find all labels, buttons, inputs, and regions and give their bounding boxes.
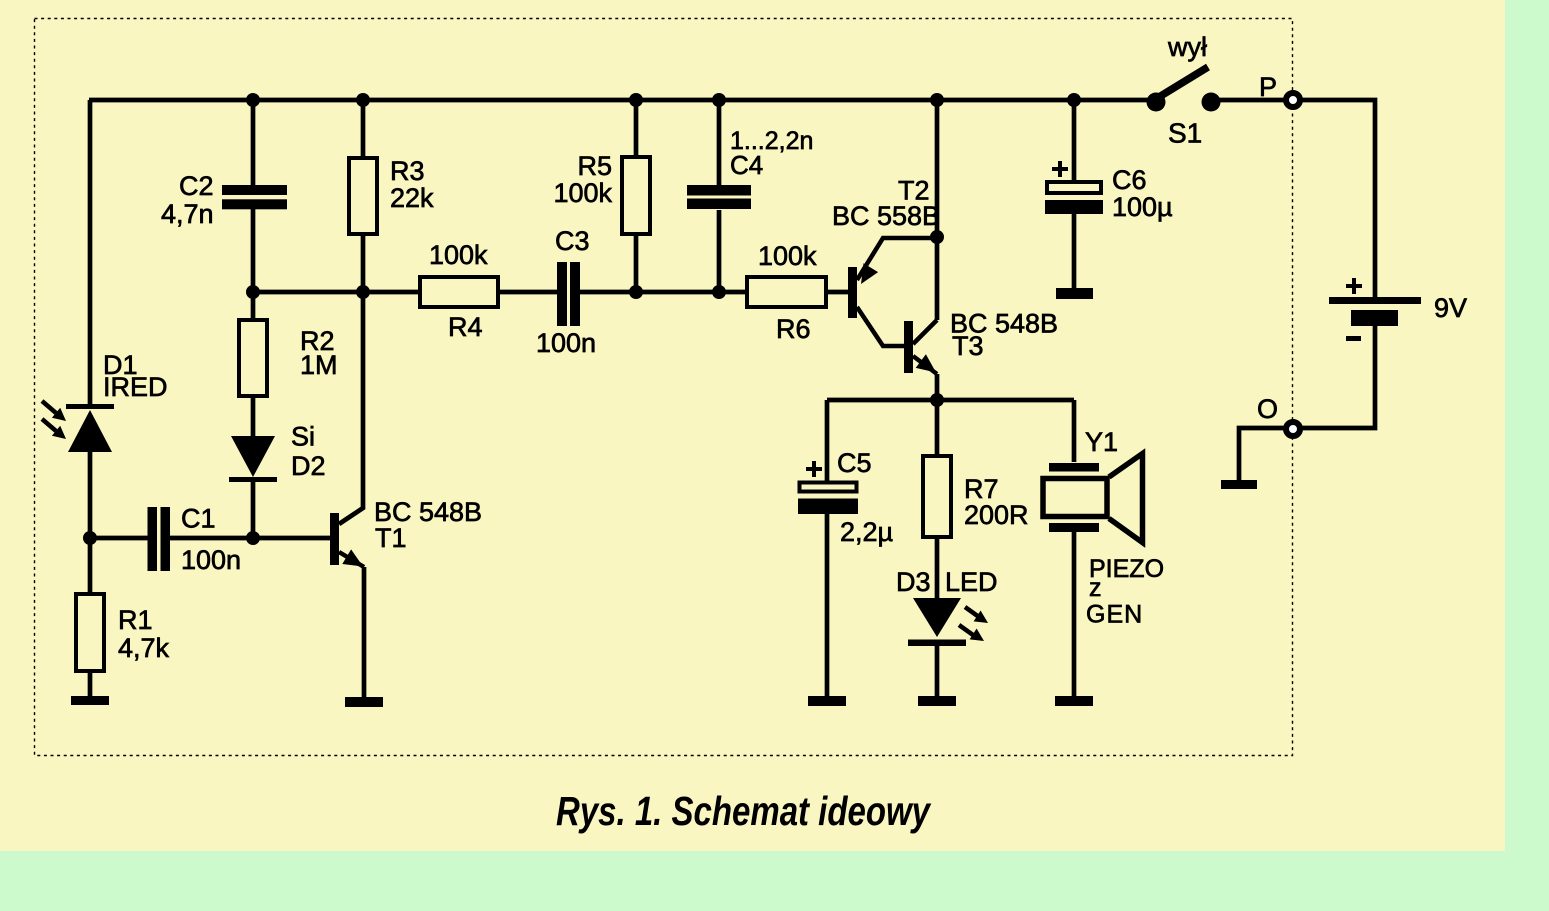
svg-text:P: P [1259,72,1277,102]
svg-text:R6: R6 [776,314,811,344]
svg-text:LED: LED [945,567,998,597]
svg-text:4,7n: 4,7n [161,199,214,229]
wire node A to R1 [88,538,93,594]
node row2 R5 [629,285,643,299]
wire R7 to D3 [935,537,940,598]
wire top rail [89,98,1156,103]
resistor R4 [420,277,498,307]
wire T1 emitter to ground [362,567,367,697]
resistor R2 [239,320,267,396]
svg-text:wył: wył [1167,32,1207,62]
switch S1 [1147,67,1221,112]
wire C4 top [717,100,722,185]
ground O terminal [1221,480,1257,489]
node top C4 [712,93,726,107]
svg-text:100µ: 100µ [1112,192,1173,222]
svg-text:Si: Si [291,422,315,452]
D3 light arrow 1 [965,607,988,623]
svg-text:C2: C2 [179,171,214,201]
svg-text:O: O [1257,394,1278,424]
svg-text:200R: 200R [964,500,1029,530]
svg-text:R5: R5 [577,151,612,181]
node row2 C2 [246,285,260,299]
ground R1 [71,696,109,705]
node top T2 [930,93,944,107]
C6 plus sign [1052,161,1068,177]
wire R3 top [361,100,366,158]
svg-text:100k: 100k [758,241,817,271]
svg-text:IRED: IRED [103,372,168,402]
transistor T2 BC 558B [848,238,937,346]
svg-text:1M: 1M [300,350,338,380]
wire S1 to P terminal [1210,98,1285,103]
resistor R3 [349,158,377,234]
wire C2 top [251,100,256,186]
D1 light arrow 1 [42,401,66,421]
wire C6 to ground [1072,214,1077,288]
node D2 C1 T1 [246,531,260,545]
diode D3 LED [908,598,966,646]
piezo Y1 [1043,454,1143,543]
D1 light arrow 2 [42,419,66,439]
wire R2 to D2 [251,396,256,436]
D3 light arrow 2 [959,625,984,641]
capacitor C1 [148,507,171,571]
wire R4 to C3 [498,290,557,295]
svg-text:100n: 100n [181,545,241,575]
svg-text:D3: D3 [896,567,931,597]
wire R6 to T2 base [826,290,848,295]
svg-text:100k: 100k [429,240,488,270]
wire C6 top [1072,100,1077,182]
wire D3 to ground [935,646,940,697]
wire Y1 to ground [1072,532,1077,697]
svg-text:C5: C5 [837,448,872,478]
svg-text:C4: C4 [730,150,763,180]
wire node A to C1 [90,536,148,541]
wire C4 bottom [717,210,722,292]
node row2 R3 [356,285,370,299]
wire R2 top [251,292,256,320]
svg-text:100k: 100k [553,178,612,208]
ground T1 [345,697,383,707]
svg-text:4,7k: 4,7k [118,633,170,663]
transistor T1 BC 548B [330,513,364,567]
wire main vertical T2/T3 [935,100,940,320]
wire C5 top [825,400,830,481]
capacitor C4 [687,185,751,209]
svg-text:R4: R4 [448,312,483,342]
capacitor C3 [557,262,580,326]
terminal P [1286,93,1300,107]
wire row2 left [253,290,420,295]
C5 plus sign [806,461,822,477]
node bottom rail [930,393,944,407]
node top C2 [246,93,260,107]
wire battery minus to O terminal [1301,325,1375,428]
node T2 emitter [930,230,944,244]
terminal O [1286,422,1300,436]
diode D2 Si [229,436,277,482]
wire D2 to node B [251,482,256,538]
wire O terminal to ground [1239,428,1285,480]
wire R7 top [935,400,940,456]
node top C6 [1067,93,1081,107]
ground C5 [808,696,846,706]
capacitor C5 electrolytic [798,483,858,515]
capacitor C6 electrolytic [1045,182,1103,214]
wire T1 collector [339,292,363,524]
resistor R6 [747,277,826,307]
node top R5 [629,93,643,107]
svg-text:T1: T1 [375,523,407,553]
wire bottom rail [827,398,1074,403]
svg-text:GEN: GEN [1086,601,1143,629]
wire D1 to node A [88,452,93,538]
resistor R7 [923,456,951,537]
wire Y1 top [1072,400,1077,462]
ground C6 [1056,288,1093,299]
svg-text:C6: C6 [1112,165,1147,195]
ground D3 [918,696,956,706]
node top R3 [356,93,370,107]
svg-text:z: z [1089,574,1102,602]
wire R3 bottom [361,234,366,292]
svg-text:Rys. 1. Schemat ideowy: Rys. 1. Schemat ideowy [556,788,932,834]
wire R1 to ground [88,671,93,697]
svg-text:T3: T3 [952,331,984,361]
svg-text:100n: 100n [536,328,596,358]
svg-text:C1: C1 [181,504,216,534]
wire P to battery [1301,100,1375,298]
svg-text:Y1: Y1 [1085,427,1118,457]
wire C5 to ground [825,512,830,697]
resistor R1 [76,594,104,671]
diode D1 IRED photodiode [66,404,114,452]
svg-text:22k: 22k [390,183,434,213]
svg-text:S1: S1 [1168,118,1202,149]
wire left column D1 top [88,100,93,405]
wire C1 to T1 base [170,536,330,541]
svg-text:D2: D2 [291,451,326,481]
svg-text:R3: R3 [390,156,425,186]
svg-text:2,2µ: 2,2µ [840,517,893,547]
svg-text:9V: 9V [1434,293,1467,323]
capacitor C2 [222,185,287,209]
node D1 C1 R1 [83,531,97,545]
battery 9V [1329,297,1421,326]
battery minus sign [1346,336,1361,341]
svg-text:C3: C3 [555,226,590,256]
wire C2 bottom [251,206,256,292]
node row2 C4 [712,285,726,299]
ground Y1 [1055,696,1093,706]
battery plus sign [1346,278,1362,294]
svg-text:BC 558B: BC 558B [832,201,940,231]
resistor R5 [622,157,650,234]
wire T3 emitter down [935,374,940,400]
wire C3 to R6 [580,290,747,295]
wire R5 bottom [634,234,639,292]
svg-text:R1: R1 [118,605,153,635]
wire R5 top [634,100,639,157]
transistor T3 BC 548B [904,320,937,374]
